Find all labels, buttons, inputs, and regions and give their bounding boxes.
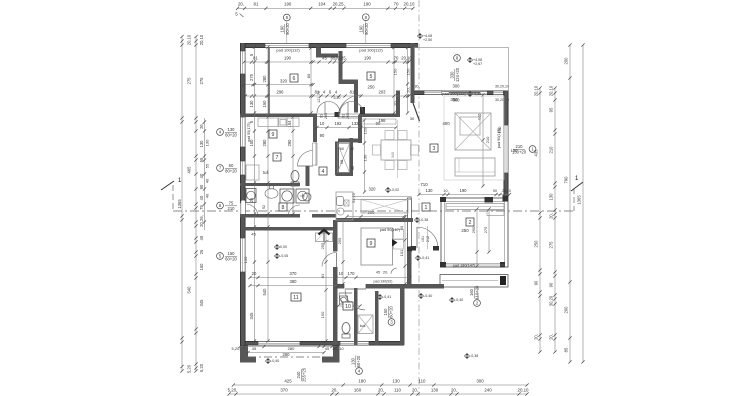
svg-text:81: 81	[253, 56, 258, 61]
svg-text:45: 45	[251, 231, 256, 236]
svg-text:5,20: 5,20	[334, 96, 341, 100]
svg-text:20,25,: 20,25,	[333, 1, 345, 6]
svg-text:345: 345	[199, 299, 204, 307]
svg-text:465: 465	[187, 166, 192, 174]
svg-text:160: 160	[354, 387, 362, 392]
svg-text:pad 100(112): pad 100(112)	[442, 91, 466, 96]
svg-text:90×20: 90×20	[285, 22, 290, 34]
svg-text:210: 210	[485, 136, 490, 143]
svg-text:192: 192	[335, 121, 343, 126]
svg-text:190: 190	[284, 1, 292, 6]
svg-text:150: 150	[393, 68, 398, 75]
svg-text:130: 130	[549, 193, 554, 201]
svg-text:345: 345	[249, 312, 254, 320]
svg-text:51,70: 51,70	[352, 193, 356, 203]
svg-text:0,00: 0,00	[280, 245, 287, 249]
svg-text:330: 330	[450, 71, 455, 79]
svg-text:-0,40: -0,40	[455, 298, 463, 302]
svg-text:55: 55	[205, 163, 210, 168]
svg-text:+2,50: +2,50	[423, 38, 432, 42]
svg-text:5,20: 5,20	[199, 363, 204, 372]
svg-text:370: 370	[280, 387, 288, 392]
svg-text:160: 160	[469, 288, 474, 296]
svg-text:45: 45	[252, 346, 257, 351]
svg-text:45: 45	[376, 271, 380, 275]
svg-text:30,20,10: 30,20,10	[495, 85, 509, 89]
svg-text:20,10: 20,10	[549, 85, 554, 96]
svg-text:30,20: 30,20	[549, 295, 554, 306]
svg-text:130: 130	[392, 378, 400, 383]
svg-text:20,: 20,	[549, 213, 554, 219]
svg-text:pad 90(167): pad 90(167)	[380, 228, 401, 232]
svg-text:20,: 20,	[331, 387, 337, 392]
svg-text:pad 55(175): pad 55(175)	[247, 122, 251, 141]
svg-text:5,20,: 5,20,	[232, 346, 241, 351]
svg-text:60: 60	[340, 147, 344, 151]
svg-text:130: 130	[199, 140, 204, 148]
svg-text:26,: 26,	[199, 123, 204, 129]
svg-text:-0,38: -0,38	[473, 92, 481, 96]
svg-text:-0,40: -0,40	[424, 294, 432, 298]
svg-text:pad 100(112): pad 100(112)	[359, 48, 383, 53]
svg-text:20,10: 20,10	[187, 34, 192, 45]
svg-text:150: 150	[406, 68, 411, 75]
svg-text:170: 170	[348, 271, 356, 276]
svg-text:540: 540	[262, 288, 267, 296]
svg-text:11: 11	[293, 295, 298, 301]
svg-text:90: 90	[199, 184, 204, 189]
svg-text:20,10: 20,10	[199, 34, 204, 45]
svg-text:120: 120	[363, 127, 368, 134]
svg-text:20,10: 20,10	[518, 387, 530, 392]
svg-text:130: 130	[351, 357, 356, 365]
svg-text:85: 85	[564, 347, 569, 352]
svg-text:290: 290	[287, 139, 292, 147]
svg-text:130: 130	[205, 139, 210, 146]
svg-text:205: 205	[324, 113, 328, 119]
svg-text:190: 190	[363, 1, 371, 6]
svg-text:20,: 20,	[383, 271, 388, 275]
svg-text:pad 190(92): pad 190(92)	[374, 280, 393, 284]
svg-text:10: 10	[345, 304, 351, 310]
svg-text:150: 150	[262, 100, 267, 108]
svg-text:75: 75	[229, 201, 234, 206]
svg-text:tuš: tuš	[360, 323, 365, 328]
svg-text:9: 9	[370, 241, 373, 247]
svg-text:91: 91	[342, 114, 346, 118]
svg-text:20,: 20,	[549, 334, 554, 340]
svg-text:90×20: 90×20	[364, 22, 369, 34]
svg-text:101: 101	[421, 236, 425, 242]
svg-text:380: 380	[290, 279, 298, 284]
svg-text:150: 150	[228, 251, 236, 256]
svg-text:32: 32	[350, 165, 355, 170]
svg-text:81: 81	[320, 273, 325, 278]
svg-text:110: 110	[394, 387, 402, 392]
svg-text:20,: 20,	[238, 1, 244, 6]
svg-text:425: 425	[284, 378, 292, 383]
svg-text:6: 6	[293, 76, 296, 82]
svg-text:2: 2	[469, 220, 472, 226]
svg-text:130: 130	[511, 148, 518, 153]
svg-text:5: 5	[235, 12, 238, 17]
svg-text:255+25: 255+25	[301, 367, 306, 382]
svg-text:60: 60	[229, 163, 234, 168]
svg-text:-0,40: -0,40	[271, 359, 279, 363]
svg-text:280: 280	[262, 75, 267, 83]
svg-text:20,: 20,	[451, 387, 457, 392]
svg-text:198: 198	[379, 118, 387, 123]
svg-text:10: 10	[339, 347, 343, 351]
svg-text:540: 540	[187, 286, 192, 294]
svg-text:40: 40	[205, 193, 210, 198]
svg-text:296: 296	[277, 90, 285, 95]
svg-text:130: 130	[228, 127, 236, 132]
svg-text:pad 180(147): pad 180(147)	[453, 264, 476, 268]
svg-text:255: 255	[337, 237, 342, 244]
svg-text:150: 150	[383, 308, 388, 316]
svg-text:90: 90	[320, 133, 325, 138]
svg-text:320: 320	[280, 78, 288, 83]
svg-text:250: 250	[461, 228, 469, 233]
svg-text:92: 92	[262, 205, 266, 209]
svg-text:20,25,: 20,25,	[335, 56, 347, 61]
svg-text:200: 200	[564, 57, 569, 65]
svg-text:130: 130	[431, 387, 439, 392]
svg-text:250: 250	[368, 85, 376, 90]
svg-text:110+20: 110+20	[474, 285, 479, 299]
svg-text:-0,41: -0,41	[383, 295, 391, 299]
svg-text:-0,38: -0,38	[420, 218, 428, 222]
svg-text:200: 200	[564, 306, 569, 314]
svg-text:340: 340	[391, 152, 395, 158]
svg-text:370: 370	[290, 271, 298, 276]
svg-text:95: 95	[549, 107, 554, 112]
svg-text:5,20,: 5,20,	[228, 387, 238, 392]
svg-text:9: 9	[272, 132, 275, 138]
svg-text:121,70: 121,70	[317, 91, 321, 103]
svg-text:-0,02: -0,02	[391, 188, 399, 192]
svg-text:81: 81	[254, 1, 259, 6]
svg-text:1: 1	[425, 205, 428, 211]
svg-text:5: 5	[370, 74, 373, 80]
svg-text:210: 210	[228, 206, 236, 211]
svg-text:10,: 10,	[443, 189, 448, 193]
svg-text:190: 190	[460, 188, 468, 193]
svg-text:60+20: 60+20	[388, 305, 393, 317]
svg-text:5,20: 5,20	[187, 364, 192, 373]
svg-text:180: 180	[358, 378, 366, 383]
svg-text:275: 275	[483, 226, 488, 233]
svg-text:275: 275	[549, 241, 554, 249]
svg-text:60+20: 60+20	[225, 132, 237, 137]
svg-text:190: 190	[284, 56, 292, 61]
svg-text:45: 45	[199, 235, 204, 240]
svg-text:150: 150	[320, 311, 325, 318]
svg-text:130: 130	[497, 126, 502, 133]
svg-text:90: 90	[534, 280, 539, 285]
svg-text:240: 240	[484, 387, 492, 392]
svg-text:40: 40	[199, 195, 204, 200]
svg-text:1365: 1365	[577, 195, 582, 205]
svg-text:80: 80	[306, 73, 311, 78]
svg-text:790: 790	[564, 176, 569, 184]
svg-text:280: 280	[288, 346, 295, 351]
svg-text:90: 90	[493, 189, 497, 193]
svg-text:290: 290	[471, 226, 476, 233]
svg-text:190: 190	[359, 25, 364, 33]
svg-text:10: 10	[320, 121, 325, 126]
svg-text:70: 70	[394, 56, 399, 61]
svg-text:tuš: tuš	[263, 170, 269, 175]
svg-text:60+20: 60+20	[356, 355, 361, 367]
svg-text:70: 70	[394, 1, 399, 6]
svg-text:212: 212	[426, 236, 430, 242]
svg-text:20,: 20,	[378, 387, 384, 392]
svg-text:20,26,: 20,26,	[199, 215, 204, 227]
svg-text:190: 190	[280, 25, 285, 33]
svg-text:300: 300	[476, 378, 484, 383]
svg-text:110: 110	[419, 378, 427, 383]
svg-text:710: 710	[420, 182, 428, 187]
svg-text:40: 40	[205, 178, 210, 183]
svg-text:104: 104	[318, 1, 326, 6]
svg-text:42: 42	[350, 147, 354, 151]
svg-text:20,: 20,	[412, 387, 418, 392]
svg-text:-0,05: -0,05	[280, 254, 288, 258]
svg-text:20,: 20,	[332, 347, 337, 351]
svg-text:260: 260	[283, 352, 291, 357]
svg-text:275: 275	[187, 77, 192, 85]
svg-text:30,: 30,	[414, 85, 419, 89]
svg-text:210: 210	[549, 146, 554, 154]
svg-text:4: 4	[322, 169, 325, 175]
svg-text:250: 250	[534, 240, 539, 248]
svg-text:+2,67: +2,67	[473, 62, 482, 66]
svg-text:-0,41: -0,41	[421, 256, 429, 260]
svg-text:80+20: 80+20	[225, 168, 237, 173]
svg-text:90: 90	[549, 282, 554, 287]
svg-text:20,10: 20,10	[534, 85, 539, 96]
svg-text:150: 150	[199, 263, 204, 271]
svg-text:20: 20	[252, 271, 257, 276]
svg-text:101: 101	[399, 249, 404, 256]
svg-text:-0,38: -0,38	[470, 354, 478, 358]
svg-text:7: 7	[276, 155, 279, 161]
svg-text:240: 240	[296, 371, 301, 379]
svg-text:20,: 20,	[393, 100, 398, 106]
svg-text:81: 81	[350, 90, 355, 95]
svg-text:320: 320	[369, 187, 377, 192]
svg-text:203: 203	[379, 90, 387, 95]
svg-text:132: 132	[352, 121, 360, 126]
svg-text:30: 30	[410, 116, 415, 121]
svg-text:130: 130	[426, 188, 434, 193]
svg-text:20,10: 20,10	[502, 189, 511, 193]
svg-text:1365: 1365	[177, 199, 182, 209]
svg-text:20,: 20,	[406, 87, 411, 93]
svg-text:3: 3	[433, 146, 436, 152]
svg-text:91: 91	[320, 114, 324, 118]
svg-text:275: 275	[249, 73, 254, 81]
svg-text:20,10: 20,10	[404, 1, 416, 6]
svg-text:190: 190	[364, 56, 372, 61]
svg-text:300: 300	[453, 84, 461, 89]
svg-text:8: 8	[282, 205, 285, 211]
svg-text:280: 280	[262, 139, 267, 147]
svg-text:130: 130	[363, 154, 368, 161]
svg-text:60+20: 60+20	[225, 256, 237, 261]
svg-text:150: 150	[243, 256, 248, 263]
svg-text:26: 26	[199, 249, 204, 254]
svg-text:124+20: 124+20	[455, 67, 460, 82]
svg-text:20,10: 20,10	[401, 56, 412, 61]
svg-text:45: 45	[325, 346, 330, 351]
svg-text:400: 400	[442, 121, 450, 126]
svg-text:20,: 20,	[534, 334, 539, 340]
svg-text:130: 130	[249, 100, 254, 108]
svg-text:pad 100(112): pad 100(112)	[276, 48, 300, 53]
svg-text:45: 45	[322, 56, 327, 61]
svg-text:58: 58	[339, 159, 344, 164]
svg-text:275: 275	[199, 77, 204, 85]
svg-text:300: 300	[450, 97, 458, 102]
